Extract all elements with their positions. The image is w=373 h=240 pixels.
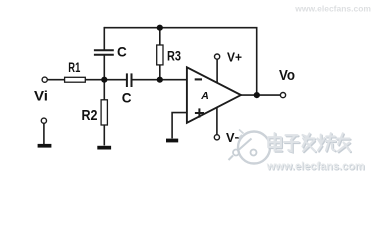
resistor R3	[157, 45, 163, 65]
svg-text:C: C	[117, 45, 127, 60]
svg-text:R2: R2	[82, 108, 98, 124]
capacitor C2 plates	[127, 73, 132, 87]
resistor R2	[101, 100, 107, 125]
terminal Vi input	[42, 77, 47, 82]
capacitor C1 plates	[94, 50, 114, 55]
wire V+ stem	[216, 59, 218, 83]
svg-text:Vo: Vo	[279, 68, 295, 84]
op-amp inverting input minus sign	[195, 78, 202, 80]
wire R2 to ground	[103, 125, 105, 146]
wire top feedback rail	[104, 28, 256, 95]
wire R3 bottom stem	[159, 65, 161, 80]
op-amp U1 triangle	[187, 67, 241, 123]
wire node B to op-amp inverting input	[160, 79, 187, 81]
wire non-inverting input to ground	[172, 113, 187, 139]
wire Vi lower terminal to ground	[43, 123, 45, 144]
wire op-amp output to Vo terminal	[241, 94, 281, 96]
junction node A	[101, 77, 107, 83]
wire input terminal to R1	[47, 79, 65, 81]
ground below R2	[97, 146, 111, 150]
wire node A to R2	[103, 80, 105, 100]
ground at non-inverting input	[166, 139, 178, 143]
terminal Vi common	[41, 118, 46, 123]
svg-text:www.elecfans.com: www.elecfans.com	[294, 4, 371, 14]
terminal V+ supply	[215, 54, 220, 59]
svg-text:Vi: Vi	[34, 88, 48, 104]
terminal Vo output	[280, 93, 285, 98]
wire capacitor C2 to node B	[132, 79, 160, 81]
terminal V- supply	[214, 135, 219, 140]
svg-text:C: C	[122, 90, 132, 105]
svg-text:www.elecfans.com: www.elecfans.com	[266, 161, 365, 173]
ground below Vi terminal	[38, 144, 52, 148]
op-amp non-inverting input plus sign	[195, 108, 204, 117]
watermark chinese text	[268, 133, 350, 151]
svg-text:R1: R1	[68, 60, 80, 75]
watermark logo circle	[229, 130, 271, 164]
wire node A to capacitor C2	[104, 79, 126, 81]
svg-text:R3: R3	[167, 48, 181, 63]
watermark chinese text shadow	[269, 134, 351, 152]
wire V- stem	[216, 107, 218, 135]
wire R3 top stem	[159, 28, 161, 46]
junction node B	[157, 77, 163, 83]
wire node A up to capacitor C1	[103, 55, 105, 80]
resistor R1	[65, 77, 86, 82]
junction top rail / R3	[157, 25, 163, 31]
svg-text:V+: V+	[227, 50, 242, 64]
junction output node	[254, 92, 260, 98]
wire R1 to node A	[85, 79, 104, 81]
wire capacitor C1 to top rail	[103, 27, 105, 50]
svg-text:A: A	[200, 90, 209, 102]
